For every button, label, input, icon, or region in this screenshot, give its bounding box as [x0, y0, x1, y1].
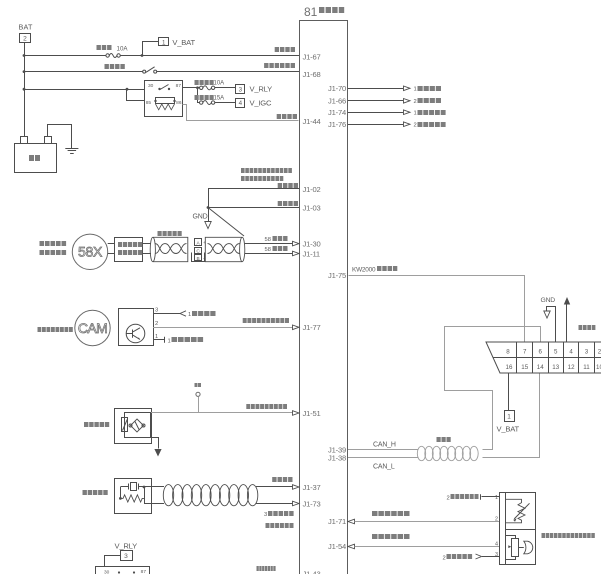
- svg-text:1: 1: [188, 312, 191, 318]
- svg-text:85: 85: [146, 100, 152, 106]
- svg-text:1: 1: [168, 338, 171, 344]
- svg-text:J1-51: J1-51: [303, 409, 321, 418]
- svg-text:KW2000: KW2000: [352, 267, 376, 274]
- svg-text:J1-03: J1-03: [303, 204, 321, 213]
- svg-text:2: 2: [414, 99, 417, 105]
- wire speed signal to J1-51: [151, 412, 293, 414]
- svg-text:5: 5: [554, 349, 558, 356]
- fuse F1 10A: [106, 54, 109, 57]
- svg-text:CAM: CAM: [78, 320, 107, 336]
- wire ECU battery power 电脑电源: [24, 55, 106, 57]
- speed sensor label 车速传感器: [84, 422, 109, 427]
- svg-text:87: 87: [176, 83, 182, 89]
- svg-text:J1-74: J1-74: [328, 108, 346, 117]
- svg-text:2: 2: [447, 496, 450, 502]
- fuse F2 10A: [200, 86, 203, 89]
- svg-text:58: 58: [265, 237, 271, 243]
- svg-text:J1-38: J1-38: [328, 454, 346, 463]
- svg-text:V_BAT: V_BAT: [497, 425, 520, 434]
- speed sensor box: [115, 409, 152, 444]
- svg-text:J1-43: J1-43: [303, 570, 321, 575]
- svg-text:J1-54: J1-54: [328, 542, 346, 551]
- svg-text:14: 14: [537, 364, 544, 371]
- svg-text:V_RLY: V_RLY: [250, 85, 273, 94]
- ground junction: [208, 189, 210, 222]
- svg-text:58X: 58X: [78, 244, 103, 260]
- junction to node 1: [141, 54, 144, 57]
- thermistor NTC: [506, 499, 526, 523]
- wire 58X signal high: [245, 243, 293, 245]
- svg-text:3: 3: [239, 86, 243, 93]
- MAP-IAT sensor box: [500, 493, 536, 565]
- svg-text:2: 2: [414, 123, 417, 129]
- svg-text:12: 12: [568, 364, 575, 371]
- svg-text:B: B: [196, 256, 199, 262]
- twisted pair coil knock: [163, 485, 173, 506]
- svg-text:30: 30: [148, 83, 154, 89]
- pressure element: [512, 539, 519, 557]
- wire shield drain diagonal: [208, 208, 244, 237]
- svg-text:J1-11: J1-11: [303, 250, 320, 259]
- OBD pin16 to V_BAT node: [508, 373, 510, 410]
- relay contact: [158, 88, 160, 90]
- OBD power arrow pin4: [566, 305, 568, 343]
- svg-text:BAT: BAT: [19, 23, 33, 32]
- wire to main relay: [24, 89, 145, 91]
- svg-text:C: C: [196, 249, 200, 255]
- svg-text:10: 10: [596, 364, 601, 371]
- twisted pair coil CAN 双绞线: [417, 446, 425, 460]
- reed switch: [122, 418, 128, 432]
- svg-text:V_IGC: V_IGC: [250, 99, 273, 108]
- connector pins A C B: [195, 239, 202, 246]
- wire CAN_H to OBD pin6: [445, 327, 541, 450]
- shielded twisted pair 1: [153, 237, 188, 261]
- OBD diagnostic connector 诊断接口: [486, 342, 601, 373]
- svg-text:J1-76: J1-76: [328, 120, 346, 129]
- svg-text:CAN_L: CAN_L: [373, 464, 395, 471]
- svg-text:8: 8: [506, 349, 510, 356]
- svg-text:15: 15: [521, 364, 528, 371]
- svg-text:30: 30: [104, 570, 110, 575]
- svg-text:2: 2: [495, 517, 498, 523]
- wire system ground J1-03: [208, 207, 299, 209]
- svg-text:GND: GND: [193, 214, 208, 221]
- svg-text:1: 1: [414, 111, 417, 117]
- wire CAN_L to OBD pin14: [483, 373, 540, 458]
- wire MAP pin3 5V supply: [482, 556, 500, 558]
- svg-text:J1-44: J1-44: [303, 117, 321, 126]
- bottom signal label: [257, 566, 276, 571]
- svg-text:V_RLY: V_RLY: [115, 542, 138, 551]
- knock internal resistor: [120, 495, 144, 502]
- svg-text:GND: GND: [541, 297, 556, 304]
- svg-text:2: 2: [443, 556, 446, 562]
- wires box to shield: [143, 243, 151, 245]
- sensor text box: [115, 238, 143, 262]
- svg-text:J1-67: J1-67: [303, 53, 321, 62]
- svg-text:1: 1: [495, 495, 498, 501]
- ignition switch 点火开关: [143, 70, 146, 73]
- svg-text:J1-73: J1-73: [303, 499, 321, 508]
- cam sensor label 凸轮轴位置传感器: [38, 327, 73, 332]
- knock sensor box: [115, 479, 152, 514]
- svg-text:3: 3: [264, 512, 267, 518]
- svg-text:1: 1: [507, 414, 511, 421]
- svg-text:J1-02: J1-02: [303, 185, 321, 194]
- svg-text:15A: 15A: [214, 96, 225, 102]
- svg-text:3: 3: [495, 552, 498, 558]
- wire shield link under pins: [192, 253, 205, 262]
- node 1 box V_BAT: [159, 38, 169, 46]
- branch to fuse F3: [196, 86, 199, 89]
- wire to lower relay: [105, 556, 121, 567]
- wire main relay output 主继电器 to J1-44: [183, 105, 299, 121]
- svg-text:10A: 10A: [214, 81, 225, 87]
- fuse F3 15A: [200, 101, 203, 104]
- battery 电瓶: [15, 144, 57, 173]
- svg-text:11: 11: [583, 364, 590, 371]
- wire 58X signal low: [245, 253, 293, 255]
- svg-text:J1-70: J1-70: [328, 84, 346, 93]
- node 4 box V_IGC: [236, 99, 245, 108]
- label 点火开关电源: [264, 63, 295, 68]
- svg-text:J1-37: J1-37: [303, 483, 321, 492]
- crank sensor label 磁电式曲轴位置传感器: [40, 241, 67, 246]
- lower relay partial: [96, 567, 150, 579]
- svg-text:3: 3: [155, 308, 158, 314]
- svg-text:4: 4: [495, 542, 498, 548]
- piezo crystal: [131, 483, 137, 491]
- svg-text:J1-75: J1-75: [328, 271, 346, 280]
- svg-text:J1-68: J1-68: [303, 70, 321, 79]
- svg-text:13: 13: [552, 364, 559, 371]
- wire knock signal to J1-37: [256, 486, 293, 488]
- relay coil: [156, 98, 175, 104]
- knock sensor label 爆震传感器: [83, 490, 108, 495]
- svg-text:4: 4: [569, 349, 573, 356]
- wire battery vertical: [24, 42, 26, 136]
- label 爆震信号地: [266, 523, 294, 528]
- svg-text:86: 86: [176, 100, 182, 106]
- svg-text:7: 7: [523, 349, 527, 356]
- MAP sensor name label: [542, 533, 595, 538]
- svg-text:16: 16: [506, 364, 513, 371]
- speed sensor ground: [151, 438, 159, 449]
- wires sensor to box: [108, 243, 115, 245]
- branch to instrument cluster 仪表: [198, 397, 200, 413]
- svg-text:4: 4: [239, 100, 243, 107]
- wire battery negative to ground: [48, 125, 72, 149]
- wire ignition switch power 点火开关电源: [24, 71, 143, 73]
- crank sensor 58X circle: [72, 234, 107, 269]
- shielded twisted pair 2: [205, 237, 242, 261]
- svg-text:3: 3: [585, 349, 589, 356]
- ground chassis symbol: [65, 148, 78, 150]
- svg-text:J1-30: J1-30: [303, 240, 321, 249]
- cam sensor box with hall transistor: [119, 309, 154, 346]
- junction dots on battery feed: [23, 54, 26, 57]
- svg-text:1: 1: [162, 39, 166, 46]
- label 双绞屏蔽线: [158, 231, 182, 236]
- svg-text:81: 81: [304, 5, 318, 19]
- branch to relay coil 85: [126, 88, 129, 91]
- cam sensor circle CAM: [75, 310, 110, 345]
- svg-text:6: 6: [538, 349, 542, 356]
- main relay K1: [145, 81, 183, 117]
- svg-text:V_BAT: V_BAT: [172, 38, 195, 47]
- svg-text:10A: 10A: [117, 46, 129, 53]
- wire system ground J1-02: [208, 188, 299, 190]
- wire knock ground to J1-73: [256, 503, 293, 505]
- svg-text:87: 87: [141, 569, 147, 574]
- svg-text:58: 58: [265, 247, 271, 253]
- hall element diamond: [131, 419, 144, 432]
- note text ground requirements: [241, 168, 292, 173]
- knock internal junctions: [119, 497, 122, 500]
- wire relay 87 output: [183, 87, 200, 89]
- svg-text:CAN_H: CAN_H: [373, 442, 396, 449]
- node 3 box V_RLY: [236, 85, 245, 94]
- node 2 box: [20, 34, 31, 43]
- svg-text:2: 2: [155, 321, 158, 327]
- svg-text:J1-71: J1-71: [328, 517, 346, 526]
- svg-text:3: 3: [124, 553, 128, 560]
- knock sensor wires to twisted pair: [144, 486, 164, 488]
- svg-text:J1-77: J1-77: [303, 323, 321, 332]
- wire MAP pin1 5V ground: [482, 496, 500, 498]
- svg-text:J1-66: J1-66: [328, 96, 346, 105]
- ECU 81-pin connector J1 box: [300, 21, 348, 575]
- svg-text:2: 2: [23, 36, 27, 43]
- label 电脑电源: [275, 47, 295, 52]
- svg-text:1: 1: [414, 87, 417, 93]
